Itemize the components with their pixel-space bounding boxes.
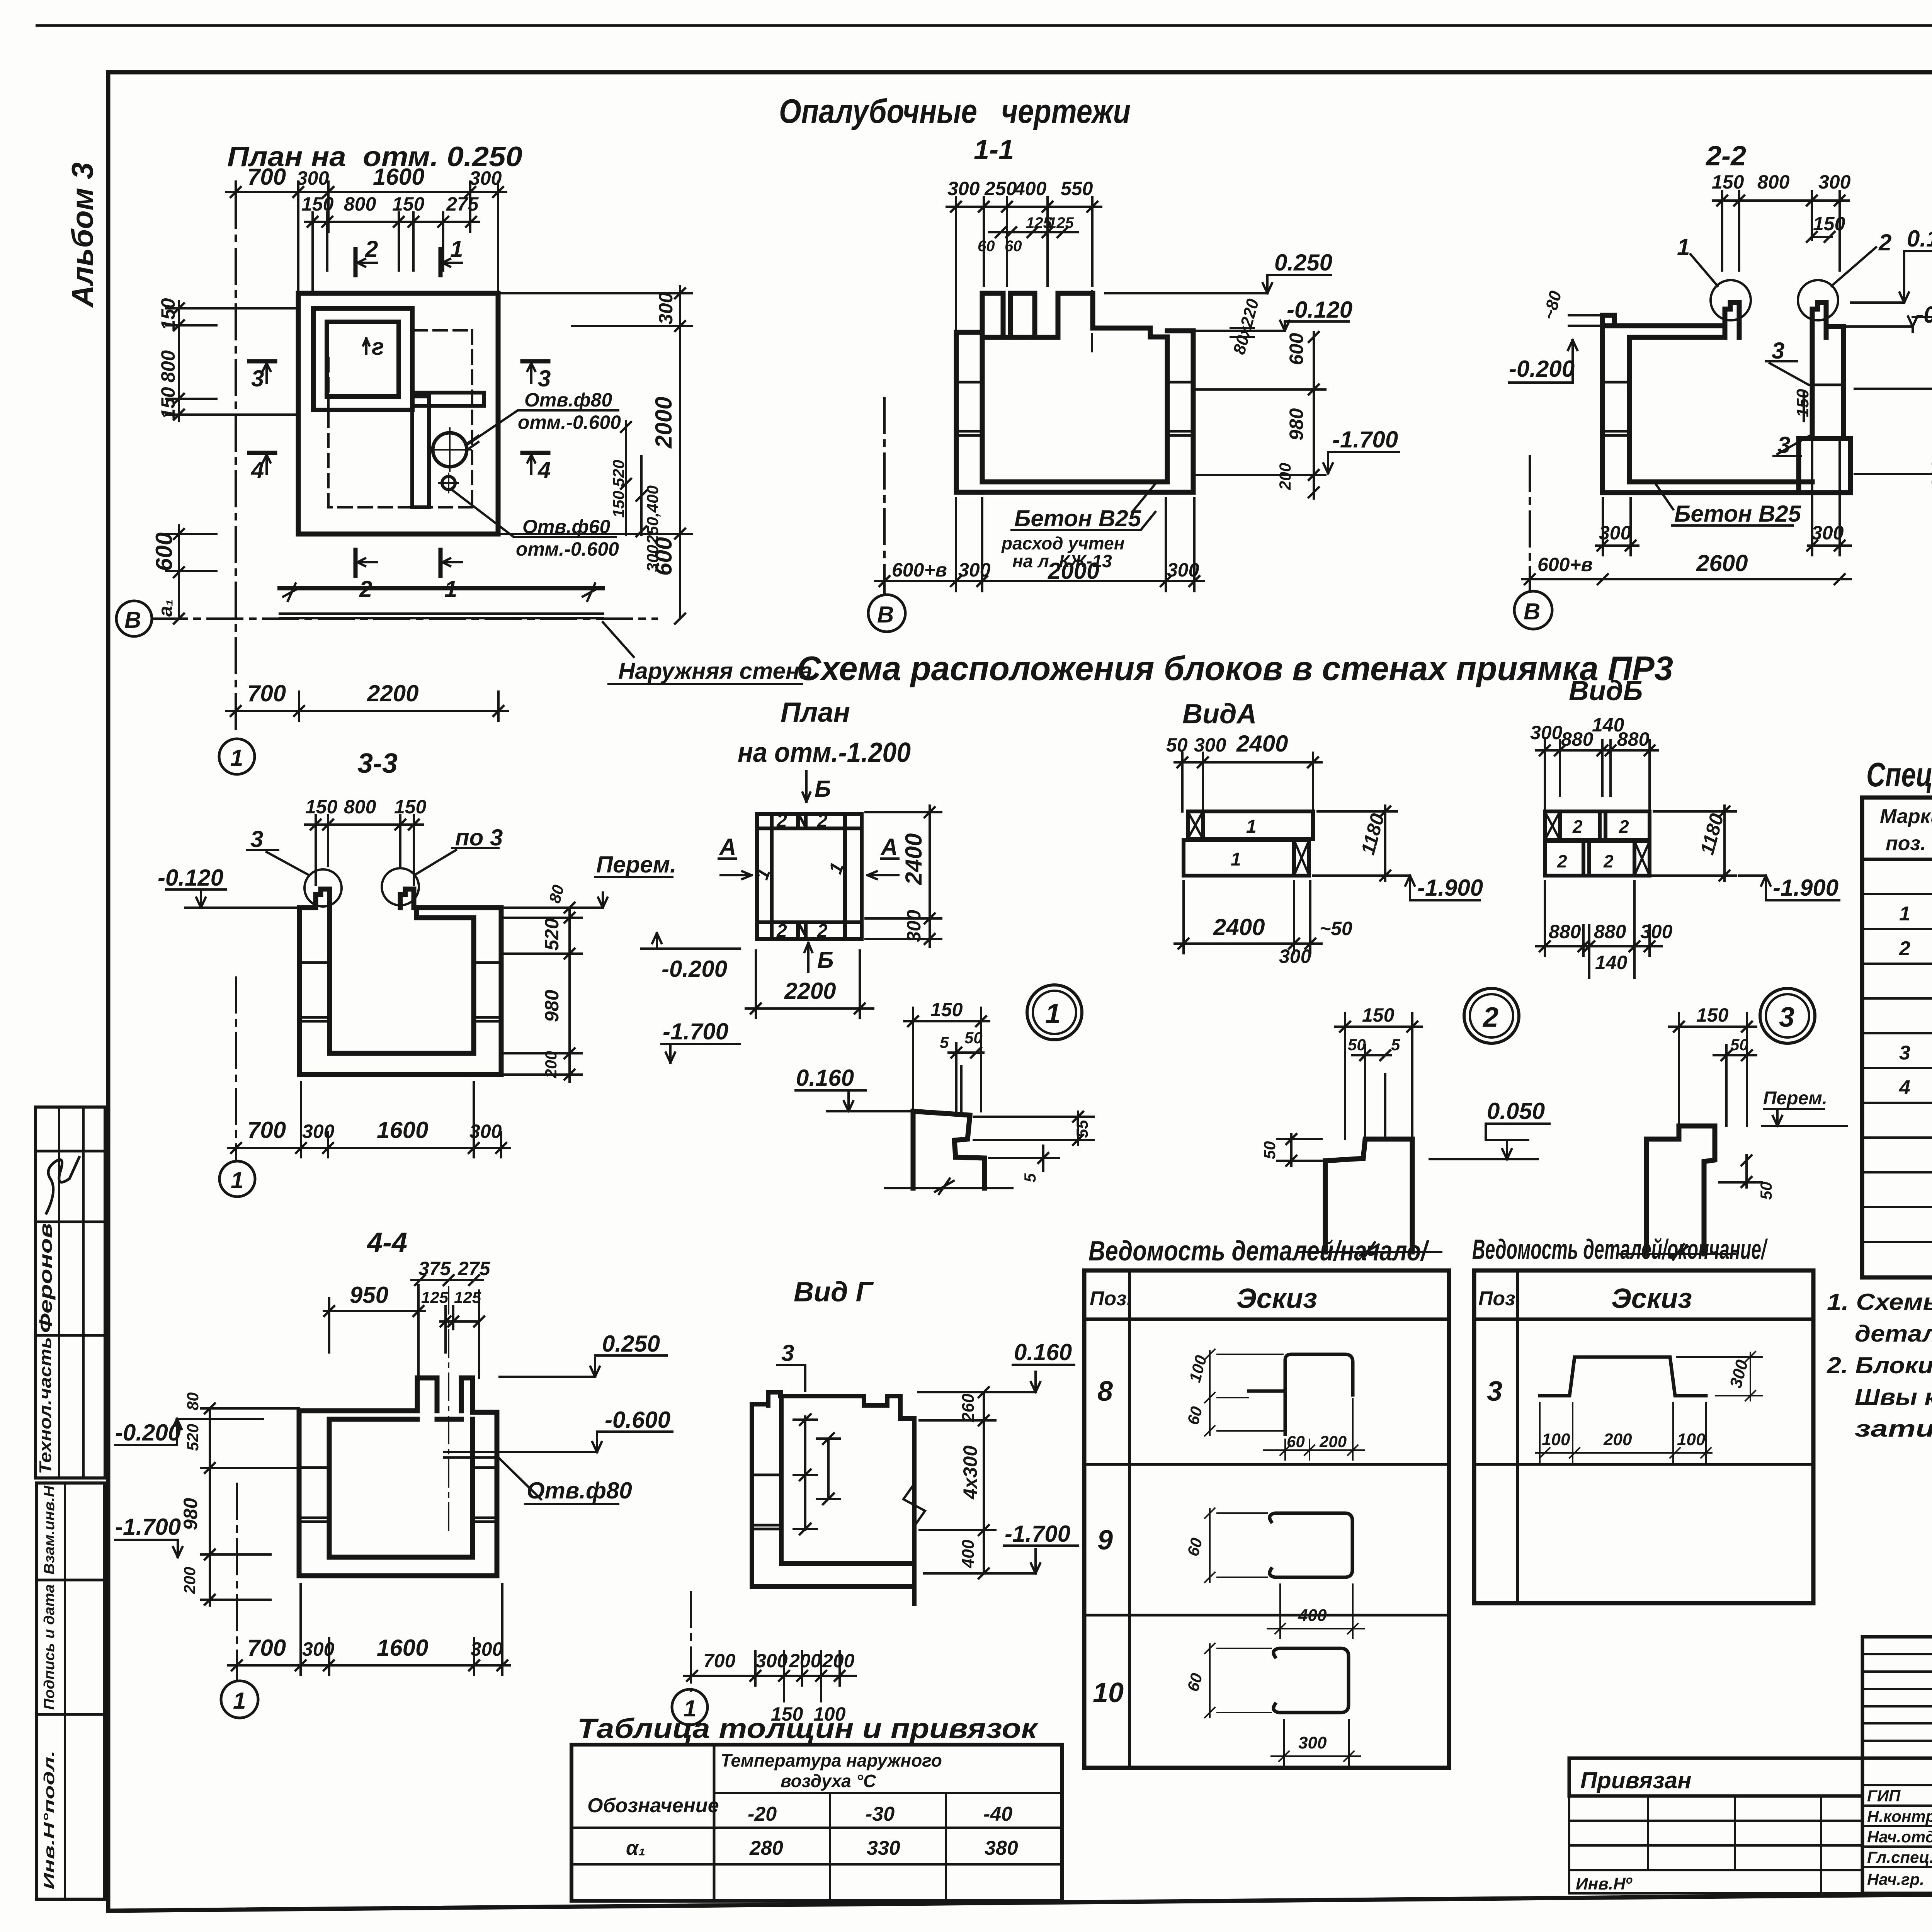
- level -0.200 (left of 4-4): [115, 1419, 263, 1445]
- svg-text:Б: Б: [815, 776, 831, 802]
- detail 2 step profile: [1325, 1139, 1412, 1252]
- svg-text:0.160: 0.160: [1014, 1339, 1072, 1365]
- section 2-2 bottom dimension 600+v/2600: [1522, 574, 1851, 584]
- svg-text:980: 980: [180, 1498, 201, 1530]
- svg-text:300: 300: [471, 1638, 503, 1660]
- svg-text:Б: Б: [817, 947, 833, 973]
- svg-text:Нач.гр.: Нач.гр.: [1867, 1870, 1924, 1888]
- svg-text:300: 300: [1167, 559, 1199, 581]
- leader to hole d60 label: [452, 490, 616, 537]
- svg-text:1: 1: [1677, 234, 1690, 260]
- svg-text:880: 880: [1549, 921, 1581, 942]
- section mark 2 (bottom): [355, 550, 377, 576]
- svg-text:950: 950: [350, 1282, 388, 1308]
- svg-text:затираются.: затираются.: [1855, 1416, 1932, 1442]
- svg-text:200: 200: [1928, 461, 1932, 488]
- svg-text:4: 4: [251, 457, 264, 483]
- view B right dimension 1180: [1650, 806, 1736, 881]
- detail 2 dim 150: [1335, 1013, 1422, 1139]
- svg-text:380: 380: [985, 1837, 1018, 1859]
- view arrow A (right): [867, 859, 898, 879]
- svg-text:2: 2: [817, 811, 828, 831]
- svg-text:1: 1: [1246, 816, 1257, 837]
- svg-text:-30: -30: [866, 1803, 895, 1825]
- plan 0.250 inner room walls: [313, 308, 412, 410]
- svg-text:150: 150: [1813, 213, 1845, 235]
- detail 2 left dims 50/5: [1277, 1134, 1321, 1166]
- section 1-1 chimney centerline: [1091, 247, 1093, 352]
- svg-text:2: 2: [1619, 816, 1629, 837]
- detail marker circle 2: [1464, 988, 1519, 1043]
- svg-text:800: 800: [1757, 171, 1790, 193]
- note 1: [1827, 1289, 1932, 1347]
- specification table headers: [1880, 805, 1932, 855]
- level -1.900 (view A): [1321, 876, 1480, 900]
- svg-text:Нач.отд.: Нач.отд.: [1867, 1828, 1932, 1846]
- svg-text:4: 4: [1899, 1077, 1910, 1099]
- svg-text:800: 800: [344, 193, 376, 215]
- svg-text:ВидА: ВидА: [1182, 699, 1257, 730]
- svg-text:200: 200: [1603, 1430, 1632, 1449]
- svg-text:2: 2: [776, 811, 787, 831]
- detail 3 right dim 50: [1719, 1155, 1762, 1187]
- vertical axis (3-3): [235, 978, 237, 1159]
- svg-text:2: 2: [1878, 230, 1891, 255]
- svg-text:700: 700: [247, 164, 286, 190]
- X mark row1 left: [1188, 811, 1203, 839]
- detail 2 level 0.050: [1430, 1124, 1549, 1159]
- view B block row 2: [1545, 841, 1650, 876]
- item 10 sketch dims: [1205, 1643, 1360, 1766]
- item 9 sketch (U-bar with hooks): [1270, 1513, 1352, 1577]
- section 4-4 channel centerline: [448, 1287, 449, 1530]
- svg-text:отм.-0.600: отм.-0.600: [516, 538, 619, 560]
- svg-text:на отм.-1.200: на отм.-1.200: [738, 737, 911, 768]
- level -0.120 (left of 3-3): [166, 889, 298, 908]
- svg-text:-1.700: -1.700: [1005, 1521, 1070, 1547]
- svg-text:1600: 1600: [373, 164, 424, 190]
- svg-text:Перем.: Перем.: [1763, 1088, 1827, 1109]
- svg-text:2200: 2200: [367, 680, 418, 706]
- svg-text:880: 880: [1561, 728, 1594, 750]
- svg-text:150: 150: [392, 193, 425, 215]
- section mark 4 (right): [522, 453, 548, 474]
- svg-text:Инв.Н°подл.: Инв.Н°подл.: [41, 1750, 58, 1889]
- item 3 leader and callout circle (left): [247, 850, 342, 906]
- detail 3 perem level: [1762, 1109, 1847, 1126]
- svg-text:А: А: [719, 834, 736, 860]
- plan -1.200 title: [738, 697, 911, 768]
- svg-text:поз.: поз.: [1886, 832, 1926, 855]
- svg-text:2000: 2000: [651, 397, 677, 449]
- sheet outer top edge line: [37, 24, 1932, 27]
- svg-text:2: 2: [1603, 851, 1614, 871]
- section 1-1 level line -0.120: [1196, 321, 1349, 331]
- svg-text:-0.200: -0.200: [115, 1420, 181, 1446]
- label otv d60: [516, 516, 619, 560]
- svg-text:275: 275: [446, 193, 479, 215]
- svg-text:200: 200: [180, 1567, 199, 1594]
- svg-text:воздуха °С: воздуха °С: [781, 1771, 876, 1791]
- section 2-2 wall block joints: [1602, 382, 1844, 435]
- svg-text:Поз.: Поз.: [1478, 1287, 1521, 1310]
- svg-text:2: 2: [1557, 851, 1567, 871]
- level 0.250 (right of 4-4): [500, 1355, 667, 1377]
- svg-text:300: 300: [643, 545, 662, 572]
- concrete B25 note with leader: [1012, 484, 1155, 530]
- left stamp lower table: [37, 1483, 104, 1899]
- axis circle B (section 1-1): [868, 595, 905, 632]
- specification row item 4: [1899, 1077, 1932, 1099]
- parts list (beginning) headers: [1090, 1283, 1317, 1314]
- svg-text:125: 125: [1048, 214, 1074, 231]
- item 10 sketch (U-bar with hooks): [1274, 1648, 1349, 1713]
- svg-text:Наружняя стена: Наружняя стена: [618, 658, 813, 684]
- item 3 sketch dims: [1536, 1352, 1762, 1463]
- section 2-2 body outline: [1602, 303, 1850, 493]
- svg-text:3: 3: [1772, 338, 1784, 364]
- main heading: formwork drawings: [779, 92, 1131, 130]
- binding box: [1569, 1758, 1862, 1893]
- svg-text:300: 300: [297, 167, 329, 189]
- view G body outline: [752, 1392, 914, 1604]
- svg-text:Спецификация к схемам,располож: Спецификация к схемам,расположенным на д…: [1866, 755, 1932, 794]
- svg-text:Отв.ф80: Отв.ф80: [524, 389, 612, 411]
- item 9 sketch dims: [1205, 1508, 1364, 1638]
- section 2-2 top dimension 150/800/300: [1713, 191, 1849, 270]
- section mark 3 (right): [522, 361, 548, 383]
- left stamp upper table: [36, 1107, 105, 1478]
- svg-text:280: 280: [749, 1837, 783, 1859]
- section 1-1 vertical axis dash-dot: [883, 398, 886, 594]
- svg-text:300: 300: [1599, 522, 1631, 544]
- level -1.700 (right of 3-3): [662, 1044, 740, 1063]
- svg-text:Схема расположения блоков в ст: Схема расположения блоков в стенах приям…: [797, 649, 1673, 687]
- revision grid: [1862, 1637, 1932, 1758]
- detail 1 break line: [885, 1179, 1012, 1194]
- svg-text:300: 300: [655, 292, 677, 325]
- svg-text:2600: 2600: [1696, 550, 1748, 576]
- svg-text:60: 60: [1287, 1432, 1305, 1451]
- svg-text:Вид Г: Вид Г: [794, 1277, 874, 1308]
- view A top dimension 50/300/2400: [1175, 753, 1321, 811]
- svg-text:Гл.спец.: Гл.спец.: [1867, 1848, 1932, 1866]
- detail 3 dim 150: [1669, 1013, 1756, 1126]
- level -0.600 (right of 4-4): [500, 1432, 672, 1452]
- svg-text:980: 980: [541, 990, 563, 1022]
- section 1-1 bottom dimension 600+v/300/2000/300: [875, 498, 1204, 591]
- specification row item 1: [1899, 903, 1932, 925]
- svg-text:880: 880: [1617, 728, 1650, 750]
- interior cross wall (horizontal): [412, 393, 484, 406]
- svg-text:140: 140: [1595, 952, 1628, 973]
- section 1-1 sub dimension 60/60/125/125: [989, 227, 1078, 237]
- svg-text:550: 550: [1061, 178, 1093, 199]
- svg-text:100: 100: [1542, 1430, 1570, 1449]
- svg-text:0.160: 0.160: [796, 1065, 854, 1091]
- axis circle 1 (view G): [672, 1689, 707, 1725]
- svg-text:5: 5: [1021, 1173, 1039, 1182]
- svg-text:2: 2: [1572, 816, 1583, 837]
- thickness table grid: [571, 1745, 1062, 1901]
- detail marker circle 1: [1027, 985, 1082, 1040]
- level 0.160 (view G): [918, 1365, 1074, 1392]
- level -1.700 (left of 4-4): [115, 1540, 182, 1557]
- svg-text:3: 3: [251, 366, 264, 391]
- svg-text:0.160: 0.160: [1907, 226, 1932, 252]
- svg-text:~50: ~50: [1320, 918, 1352, 939]
- svg-text:2400: 2400: [1213, 914, 1265, 940]
- svg-text:50: 50: [1348, 1036, 1366, 1054]
- section mark 2 (top): [355, 249, 377, 275]
- svg-text:-0.200: -0.200: [1509, 356, 1575, 382]
- svg-text:3: 3: [250, 826, 263, 852]
- svg-text:А: А: [880, 834, 898, 860]
- plan left dimension 150/800/150: [166, 301, 298, 421]
- svg-text:2: 2: [817, 921, 828, 941]
- svg-text:α₁: α₁: [626, 1837, 646, 1859]
- svg-text:520: 520: [541, 918, 563, 951]
- svg-text:50: 50: [1757, 1182, 1775, 1200]
- left stamp lower table captions: [41, 1485, 58, 1889]
- hole d60 (small circle): [439, 473, 458, 493]
- svg-text:55: 55: [1073, 1120, 1091, 1138]
- svg-text:Обозначение: Обозначение: [587, 1794, 719, 1817]
- section 2-2 vertical axis dash-dot: [1529, 456, 1531, 589]
- svg-text:200: 200: [542, 1051, 560, 1078]
- block hatch strips (plan -1.200): [799, 815, 806, 936]
- svg-text:300: 300: [755, 1650, 788, 1672]
- svg-text:1. Схемы расположения арматур: 1. Схемы расположения арматурных элемент…: [1827, 1289, 1932, 1315]
- signature table: [1862, 1758, 1932, 1893]
- album label: [65, 162, 99, 308]
- leader to hole d80 label: [468, 410, 618, 449]
- svg-text:В: В: [1524, 599, 1540, 624]
- svg-text:520: 520: [609, 460, 628, 487]
- svg-text:2. Блоки стен укладывать на це: 2. Блоки стен укладывать на цементно-пес…: [1827, 1352, 1932, 1378]
- svg-text:2400: 2400: [1236, 731, 1288, 757]
- axis circle 1 (4-4): [221, 1681, 258, 1718]
- thickness table texts: [587, 1750, 1018, 1859]
- svg-text:600: 600: [151, 532, 177, 571]
- detail 1 level 0.160: [796, 1090, 913, 1111]
- svg-text:300: 300: [1530, 722, 1563, 743]
- svg-text:Привязан: Привязан: [1580, 1767, 1691, 1793]
- detail 1 dim 5/50: [949, 1043, 983, 1113]
- svg-text:Швы кладки с внутренней сторон: Швы кладки с внутренней стороны расшиваю…: [1855, 1384, 1932, 1410]
- plan 0.250 dimension line 700/300/1600/300: [226, 182, 506, 294]
- view arrow A (left): [719, 859, 752, 879]
- svg-text:а₁: а₁: [155, 599, 176, 617]
- view B bottom dimension 880/880/300 + 140: [1536, 881, 1662, 978]
- plan 0.250 dimension line 150/800/150/275: [305, 213, 479, 294]
- vertical axis (view G bottom): [690, 1592, 692, 1690]
- view arrow B (bottom): [804, 943, 812, 972]
- item 3 leader (upper): [1766, 361, 1809, 385]
- svg-text:150: 150: [1712, 171, 1744, 193]
- svg-text:700: 700: [247, 680, 286, 706]
- X mark viewB row1: [1545, 811, 1560, 840]
- item 3 leader (lower): [1774, 434, 1812, 456]
- section mark 4 (left): [249, 453, 275, 474]
- svg-text:8: 8: [1097, 1376, 1113, 1407]
- view B top dimension 300/880/140/880: [1536, 740, 1658, 811]
- level -1.900 (view B): [1739, 876, 1839, 900]
- signature squiggle in upper stamp: [46, 1157, 79, 1213]
- section mark 1 (bottom): [440, 550, 462, 576]
- svg-text:150: 150: [1362, 1004, 1395, 1026]
- exterior wall label with leader: [603, 622, 802, 684]
- svg-text:150: 150: [157, 387, 179, 419]
- item 8 sketch (bent bar): [1249, 1354, 1353, 1434]
- svg-text:800: 800: [344, 796, 376, 818]
- svg-text:300: 300: [1811, 522, 1844, 544]
- svg-text:1: 1: [233, 1688, 246, 1714]
- svg-text:Инв.Нº: Инв.Нº: [1576, 1874, 1633, 1893]
- section 4-4 dims 375/275 and 950, 125/125: [324, 1275, 484, 1378]
- svg-text:5: 5: [1391, 1036, 1400, 1054]
- svg-text:4х300: 4х300: [959, 1446, 981, 1500]
- section 1-1 level -1.700: [1323, 452, 1399, 473]
- svg-text:2: 2: [776, 921, 787, 941]
- svg-text:150: 150: [157, 298, 179, 330]
- specification row item 2: [1899, 937, 1932, 960]
- svg-text:Феронов: Феронов: [36, 1223, 56, 1333]
- svg-text:-1.900: -1.900: [1417, 875, 1483, 901]
- svg-text:300: 300: [1298, 1733, 1327, 1752]
- svg-text:1: 1: [450, 236, 463, 262]
- svg-text:Поз.: Поз.: [1090, 1287, 1132, 1310]
- svg-text:300: 300: [469, 167, 502, 189]
- room label G with arrow: [363, 338, 369, 354]
- section 3-3 top dimension 150/800/150: [305, 815, 423, 885]
- svg-text:0.250: 0.250: [602, 1331, 660, 1357]
- specification table grid: [1862, 798, 1932, 1277]
- svg-text:Н.контр.: Н.контр.: [1867, 1807, 1932, 1825]
- svg-text:1600: 1600: [377, 1117, 428, 1143]
- item 3 dim 150 (rotated): [1803, 391, 1805, 421]
- svg-text:Таблица толщин и привязок: Таблица толщин и привязок: [577, 1713, 1039, 1744]
- svg-text:деталей см.лист КЖ-13.: деталей см.лист КЖ-13.: [1855, 1321, 1932, 1347]
- svg-text:-0.120: -0.120: [1916, 302, 1932, 328]
- svg-text:Ведомость деталей/окончание/: Ведомость деталей/окончание/: [1472, 1234, 1768, 1265]
- label otv d80: [518, 389, 621, 433]
- svg-text:60: 60: [1005, 238, 1022, 255]
- left stamp upper table captions: [36, 1223, 56, 1474]
- item 3 sketch (hat profile): [1540, 1357, 1706, 1396]
- svg-text:10: 10: [1093, 1677, 1124, 1708]
- svg-text:80: 80: [184, 1392, 202, 1410]
- svg-text:330: 330: [867, 1837, 900, 1859]
- detail 2 break line: [1298, 1242, 1441, 1258]
- svg-text:-1.700: -1.700: [115, 1514, 181, 1540]
- axis circle B (plan 0.250): [116, 601, 152, 636]
- svg-text:300: 300: [1818, 171, 1851, 193]
- svg-text:275: 275: [457, 1258, 491, 1279]
- concrete B25 label (2-2) with leader: [1655, 483, 1793, 526]
- svg-text:600+в: 600+в: [892, 559, 947, 581]
- svg-text:2000: 2000: [1048, 558, 1099, 584]
- level -0.200 (left of 2-2): [1509, 340, 1577, 383]
- svg-text:1600: 1600: [377, 1635, 428, 1661]
- detail 2 dim 50/5: [1352, 1045, 1391, 1140]
- section 3-3 wall block joints: [299, 963, 501, 1021]
- svg-text:-1.700: -1.700: [1332, 427, 1398, 452]
- signature rows: roles and names: [1867, 1787, 1932, 1888]
- svg-text:520: 520: [184, 1424, 202, 1451]
- plan right dimension 300/2000/600: [500, 286, 692, 624]
- X mark viewB row2: [1634, 841, 1650, 876]
- level 0.160 (right of 2-2): [1851, 251, 1932, 303]
- exterior wall below plan (double line with breaks): [280, 583, 603, 618]
- axis circle 1 (plan 0.250): [219, 739, 255, 774]
- svg-text:150: 150: [305, 796, 338, 818]
- svg-text:Альбом 3: Альбом 3: [65, 162, 99, 308]
- svg-text:ВидБ: ВидБ: [1569, 675, 1643, 706]
- hole label leader (4-4): [498, 1458, 618, 1504]
- view G right dimension 260/4x300/400: [920, 1387, 995, 1578]
- callout circle 1 with leader: [1690, 254, 1751, 320]
- svg-text:расход учтен: расход учтен: [1001, 533, 1124, 553]
- svg-text:600+в: 600+в: [1537, 554, 1593, 575]
- plan 0.250 title: [227, 141, 522, 172]
- svg-text:150: 150: [930, 999, 963, 1020]
- detail 3 dim 50: [1714, 1045, 1756, 1126]
- svg-text:100: 100: [1677, 1430, 1706, 1449]
- view A block row 1: [1188, 811, 1313, 839]
- view B block row 1: [1545, 811, 1650, 840]
- perem level (right of 3-3): [425, 877, 672, 908]
- svg-text:Бетон В25: Бетон В25: [1674, 501, 1802, 527]
- svg-text:Перем.: Перем.: [596, 852, 677, 878]
- view G anchor bar 1 with ticks: [794, 1414, 817, 1534]
- svg-text:-0.600: -0.600: [605, 1407, 670, 1433]
- detail 1 step profile: [913, 1111, 985, 1188]
- svg-text:800: 800: [157, 350, 179, 383]
- svg-text:-0.200: -0.200: [662, 956, 727, 982]
- svg-text:3-3: 3-3: [357, 748, 398, 779]
- section mark 1 (top): [440, 249, 462, 275]
- item po 3 leader and callout circle (right): [382, 848, 498, 905]
- section 4-4 body outline: [299, 1378, 497, 1576]
- svg-text:1-1: 1-1: [974, 134, 1014, 165]
- svg-text:2: 2: [1899, 937, 1910, 960]
- axis circle 1 (3-3): [219, 1161, 255, 1197]
- section 3-3 body outline: [299, 889, 501, 1075]
- svg-text:2400: 2400: [901, 833, 927, 885]
- section 1-1 body outline: [956, 293, 1193, 492]
- svg-text:В: В: [877, 602, 894, 628]
- svg-text:300: 300: [469, 1121, 502, 1142]
- svg-text:3: 3: [538, 366, 551, 391]
- svg-text:50: 50: [1260, 1141, 1279, 1159]
- svg-text:400: 400: [1014, 178, 1047, 199]
- svg-text:400: 400: [1298, 1606, 1327, 1625]
- svg-text:Эскиз: Эскиз: [1236, 1283, 1317, 1314]
- svg-text:300: 300: [1640, 921, 1673, 942]
- svg-text:Бетон В25: Бетон В25: [1014, 505, 1142, 531]
- parts list (end) table grid: [1474, 1270, 1813, 1603]
- svg-text:2: 2: [1482, 1002, 1498, 1033]
- svg-text:План: План: [781, 697, 850, 728]
- svg-text:3: 3: [1487, 1376, 1502, 1407]
- svg-text:700: 700: [247, 1117, 286, 1143]
- svg-text:4: 4: [537, 457, 551, 483]
- svg-text:125: 125: [454, 1288, 481, 1306]
- plan -1.200 walls: [757, 814, 862, 939]
- plan bottom dimension 700/2200: [226, 692, 508, 721]
- section 3-3 bottom dimension 700/300/1600/300: [228, 1082, 510, 1157]
